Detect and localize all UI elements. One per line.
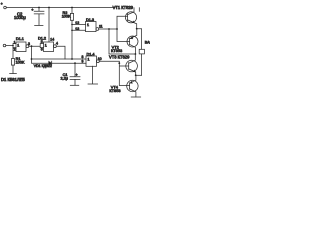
svg-text:14: 14 xyxy=(50,38,54,42)
loudspeaker BA1 xyxy=(139,49,144,54)
gate D1.2 xyxy=(44,42,54,52)
gate D1.3 xyxy=(86,22,97,32)
diode VD1 xyxy=(49,61,52,65)
svg-text:1: 1 xyxy=(88,58,90,62)
terminal X2 (left input) xyxy=(3,44,6,47)
svg-text:VT3 КТ829: VT3 КТ829 xyxy=(109,55,130,60)
svg-text:D1.3: D1.3 xyxy=(86,18,94,22)
resistor R2 xyxy=(71,8,73,14)
wire: D1.2 out down to pin8 wire xyxy=(56,46,65,59)
node: pin14 tap xyxy=(48,7,50,9)
svg-text:ВА1: ВА1 xyxy=(145,40,150,44)
wire: base tie VT1/VT2 xyxy=(117,16,130,41)
svg-text:5: 5 xyxy=(41,40,43,44)
wire: input to D1.1 xyxy=(6,44,16,48)
svg-text:100K: 100K xyxy=(16,61,25,65)
node: lower bridge output xyxy=(135,74,137,76)
node: rail end junction xyxy=(114,7,116,9)
wire: pin 11 output xyxy=(99,28,117,30)
svg-text:D1.4: D1.4 xyxy=(87,52,95,56)
svg-text:2,2μ: 2,2μ xyxy=(61,77,68,81)
svg-text:1: 1 xyxy=(17,43,19,47)
svg-text:1000μ: 1000μ xyxy=(14,15,26,20)
ground (below R1) xyxy=(10,73,17,75)
svg-text:12: 12 xyxy=(75,21,79,25)
ground (VT4 collector) xyxy=(131,96,141,98)
wire: via VD1 to D1.4 pin 9 xyxy=(32,59,87,63)
svg-text:8: 8 xyxy=(82,55,84,59)
node: upper bridge output xyxy=(136,28,138,30)
capacitor C1 xyxy=(74,62,76,64)
svg-text:9: 9 xyxy=(82,60,84,64)
svg-text:VT1 КТ829: VT1 КТ829 xyxy=(113,5,134,10)
svg-text:100K: 100K xyxy=(62,14,71,18)
wire: feedback from D1.1 node down xyxy=(31,46,33,59)
capacitor C2 xyxy=(34,8,44,26)
svg-text:13: 13 xyxy=(75,27,79,31)
svg-text:6: 6 xyxy=(41,48,43,52)
wire: branch to lower bridge collectors xyxy=(109,29,135,54)
node: C2 tap xyxy=(38,7,40,9)
wire: D1.1 out to D1.2 in xyxy=(29,44,44,48)
terminal X1 (top left input) xyxy=(4,6,7,9)
wire: D1.2 pin 14 supply xyxy=(48,8,50,43)
svg-text:1: 1 xyxy=(45,43,47,47)
wire: to loudspeaker xyxy=(137,29,142,50)
svg-text:VD1 КД522: VD1 КД522 xyxy=(34,64,52,68)
svg-text:10: 10 xyxy=(98,57,102,61)
svg-text:1: 1 xyxy=(87,23,89,27)
gate D1.1 xyxy=(16,42,26,52)
wire: base tie VT3/VT4 xyxy=(119,63,129,85)
svg-text:+: + xyxy=(75,72,78,77)
resistor R1 xyxy=(12,48,14,59)
wire: pin 10 output xyxy=(99,61,119,63)
wire: to D1.4 pin 8 xyxy=(32,58,87,60)
svg-text:+: + xyxy=(1,2,3,6)
ground (D1.4 pin 7) xyxy=(88,66,98,84)
svg-text:11: 11 xyxy=(99,24,103,28)
svg-text:D1 К561ЛЕ5: D1 К561ЛЕ5 xyxy=(1,77,25,82)
wire: +V top rail xyxy=(6,7,114,9)
wire: D1.3 input stubs (pins 12,13) xyxy=(72,24,86,30)
svg-text:КТ853: КТ853 xyxy=(111,48,122,53)
svg-text:D1.1: D1.1 xyxy=(16,37,24,41)
ground (below C1) xyxy=(70,84,79,86)
node: R2 tap xyxy=(71,7,73,9)
svg-text:4: 4 xyxy=(56,42,58,46)
svg-text:D1.2: D1.2 xyxy=(38,36,46,40)
svg-text:КТ853: КТ853 xyxy=(109,88,120,93)
svg-text:3: 3 xyxy=(28,42,30,46)
svg-text:2: 2 xyxy=(14,48,16,52)
ground (below C2) xyxy=(35,24,43,26)
